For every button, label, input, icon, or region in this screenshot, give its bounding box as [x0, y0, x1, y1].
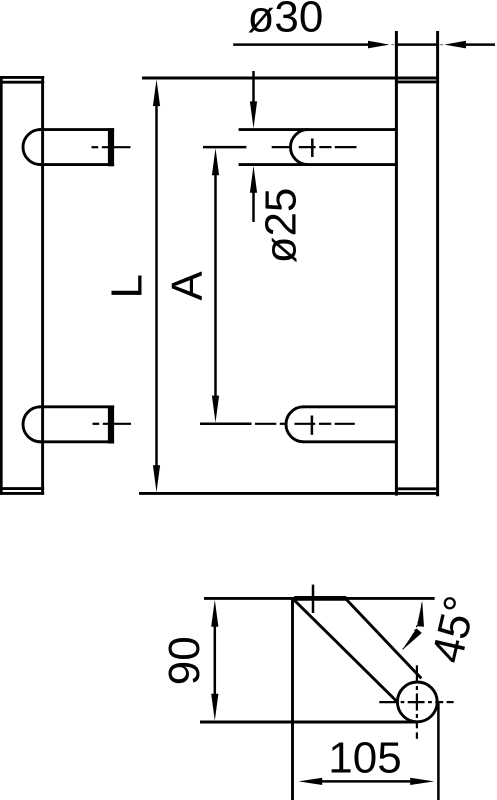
dimension 90: top arrow — [211, 600, 218, 627]
dimension o30: line right part — [466, 43, 495, 46]
dimension A: bottom arrow — [212, 396, 219, 423]
dimension 45deg: top arrow — [417, 601, 424, 627]
side view: top post centerline — [92, 146, 99, 148]
dimension 105: left arrow — [299, 778, 323, 785]
side view: door top edge outer line — [0, 76, 44, 79]
front view: door top edge — [142, 77, 439, 80]
detail view: circle horizontal centerline — [379, 701, 397, 703]
front view: handle tube left edge — [395, 31, 398, 496]
detail view: post left diagonal — [293, 599, 396, 701]
svg-text:ø30: ø30 — [248, 0, 324, 41]
front view: top post centerline — [272, 146, 291, 148]
dimension o30: line between tube edges — [398, 43, 436, 46]
detail view: left vertical line — [291, 598, 294, 800]
svg-text:L: L — [103, 274, 152, 298]
dimension 90: bottom arrow — [211, 694, 218, 721]
front view: handle tube top end cap — [398, 80, 436, 83]
dimension 105: line — [322, 780, 410, 783]
front view: top post lower outline + extension — [239, 163, 395, 166]
dimension A: extension line bottom — [200, 423, 252, 426]
svg-text:A: A — [163, 271, 212, 301]
dimension L: top arrow — [153, 79, 160, 106]
dimension o30: right arrow — [444, 41, 466, 49]
front view: bottom post cap arc — [286, 407, 304, 442]
front view: handle tube bottom end cap — [398, 487, 436, 490]
side view: bottom post upper outline — [39, 405, 115, 408]
dimension L: line — [155, 105, 158, 468]
side view: bottom post rounded cap arc — [23, 407, 41, 442]
dimension 45deg: arc — [403, 604, 422, 649]
detail view: tube circle — [397, 682, 437, 722]
front view: bottom post upper outline — [303, 405, 396, 408]
dimension 90: line — [214, 626, 217, 696]
dimension A: top arrow — [212, 148, 219, 175]
dimension 105: left extension is detail left line; right extension — [437, 702, 440, 800]
detail view: circle vertical centerline — [416, 665, 418, 682]
side view: door top edge inner line — [0, 81, 44, 84]
dimension o25: upper line — [252, 71, 255, 103]
svg-text:105: 105 — [328, 734, 401, 783]
dimension A: line — [214, 174, 217, 398]
front view: bottom post center tick — [311, 416, 314, 435]
front view: top post center tick — [311, 139, 314, 158]
dimension o25: lower line — [252, 191, 255, 222]
detail view: post end face (thick) — [294, 596, 346, 601]
side view: door bottom edge inner line — [0, 487, 44, 490]
front view: bottom post centerline — [255, 423, 276, 425]
dimension A: extension line top — [203, 146, 246, 149]
dimension o30: left arrow — [368, 41, 390, 49]
dimension L: bottom arrow — [153, 465, 160, 492]
svg-text:ø25: ø25 — [257, 188, 306, 264]
side view: bottom post lower outline — [39, 440, 115, 443]
dimension o25: upper arrow — [250, 101, 257, 128]
front view: top post upper outline + extension — [239, 128, 395, 131]
side view: top post upper outline — [39, 128, 115, 131]
detail view: post right diagonal — [346, 599, 422, 679]
side view: bottom post centerline — [93, 423, 100, 425]
dimension o25: lower arrow — [250, 166, 257, 193]
front view: door bottom edge — [139, 492, 439, 495]
detail view: post top center tick — [312, 585, 315, 613]
dimension 105: right arrow — [410, 778, 434, 785]
side view: door panel left edge — [0, 76, 3, 495]
svg-text:90: 90 — [160, 636, 209, 685]
side view: bottom post end bar (tube wall) — [108, 406, 114, 444]
side view: top post rounded cap arc — [23, 130, 41, 165]
side view: top post lower outline — [39, 163, 115, 166]
front view: handle tube right edge — [436, 31, 439, 496]
detail view: bottom reference line (90) — [200, 721, 417, 724]
side view: door bottom edge outer line — [0, 492, 44, 495]
dimension o30: line left part — [233, 43, 368, 46]
detail view: top reference line — [204, 597, 435, 600]
side view: top post end bar (tube wall) — [108, 128, 114, 166]
side view: door panel right edge — [41, 76, 44, 495]
front view: bottom post lower outline — [303, 440, 396, 443]
dimension 45deg: bottom arrow — [402, 628, 422, 650]
front view: top post cap arc — [291, 130, 309, 165]
